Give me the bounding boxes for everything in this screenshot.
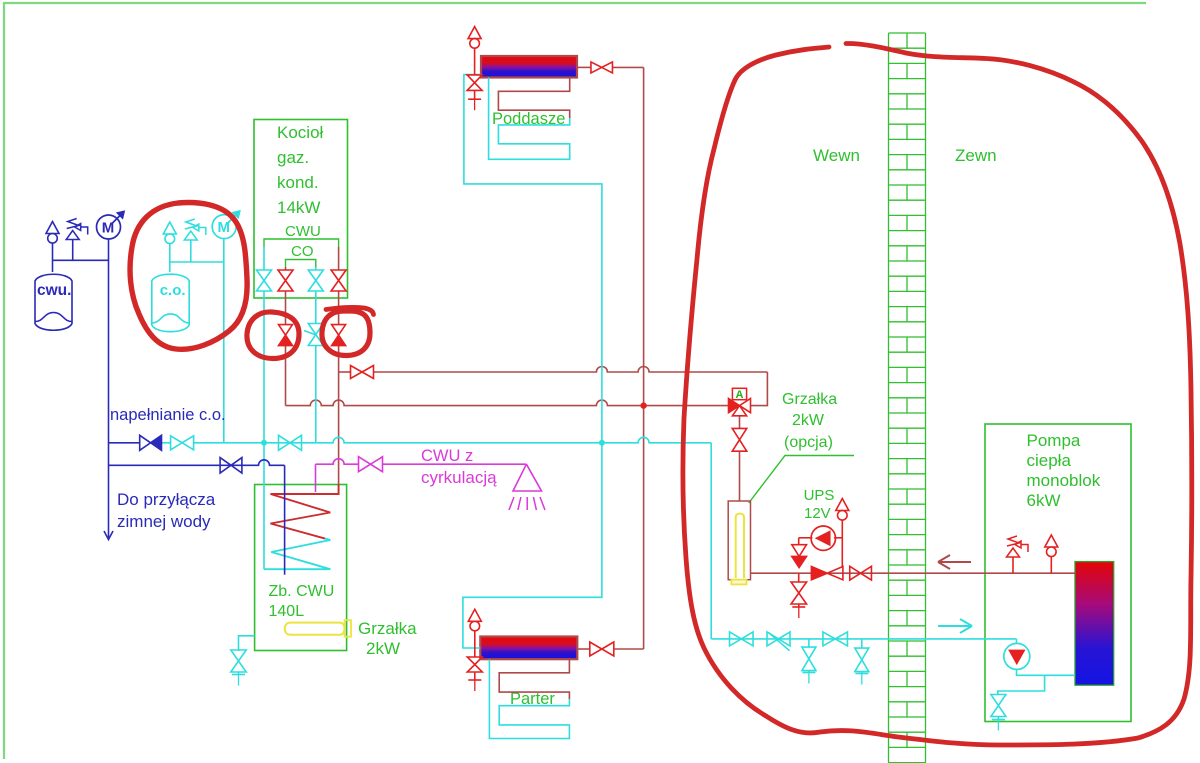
svg-text:Zewn: Zewn: [955, 146, 997, 165]
svg-text:6kW: 6kW: [1027, 491, 1061, 510]
svg-text:(opcja): (opcja): [784, 434, 833, 451]
svg-text:c.o.: c.o.: [160, 282, 186, 299]
svg-text:monoblok: monoblok: [1027, 471, 1101, 490]
svg-text:CWU: CWU: [285, 223, 321, 240]
svg-text:napełnianie c.o.: napełnianie c.o.: [110, 406, 226, 424]
svg-text:UPS: UPS: [804, 487, 835, 504]
svg-text:2kW: 2kW: [366, 639, 400, 658]
svg-text:ciepła: ciepła: [1027, 451, 1072, 470]
svg-text:12V: 12V: [804, 505, 831, 522]
svg-text:Do przyłącza: Do przyłącza: [117, 490, 216, 509]
svg-text:Pompa: Pompa: [1027, 431, 1081, 450]
svg-text:cyrkulacją: cyrkulacją: [421, 468, 497, 487]
svg-text:Grzałka: Grzałka: [782, 391, 837, 408]
svg-text:kond.: kond.: [277, 173, 319, 192]
svg-text:A: A: [736, 389, 744, 401]
svg-text:cwu.: cwu.: [37, 282, 71, 299]
svg-text:Wewn: Wewn: [813, 146, 860, 165]
svg-text:CWU z: CWU z: [421, 447, 473, 465]
svg-text:Grzałka: Grzałka: [358, 619, 417, 638]
svg-text:CO: CO: [291, 243, 314, 260]
svg-text:2kW: 2kW: [792, 412, 825, 429]
svg-text:14kW: 14kW: [277, 198, 320, 217]
svg-text:gaz.: gaz.: [277, 148, 309, 167]
svg-text:Kocioł: Kocioł: [277, 123, 324, 142]
svg-text:Zb. CWU: Zb. CWU: [269, 583, 335, 600]
svg-text:140L: 140L: [269, 603, 305, 620]
svg-text:zimnej wody: zimnej wody: [117, 512, 211, 531]
